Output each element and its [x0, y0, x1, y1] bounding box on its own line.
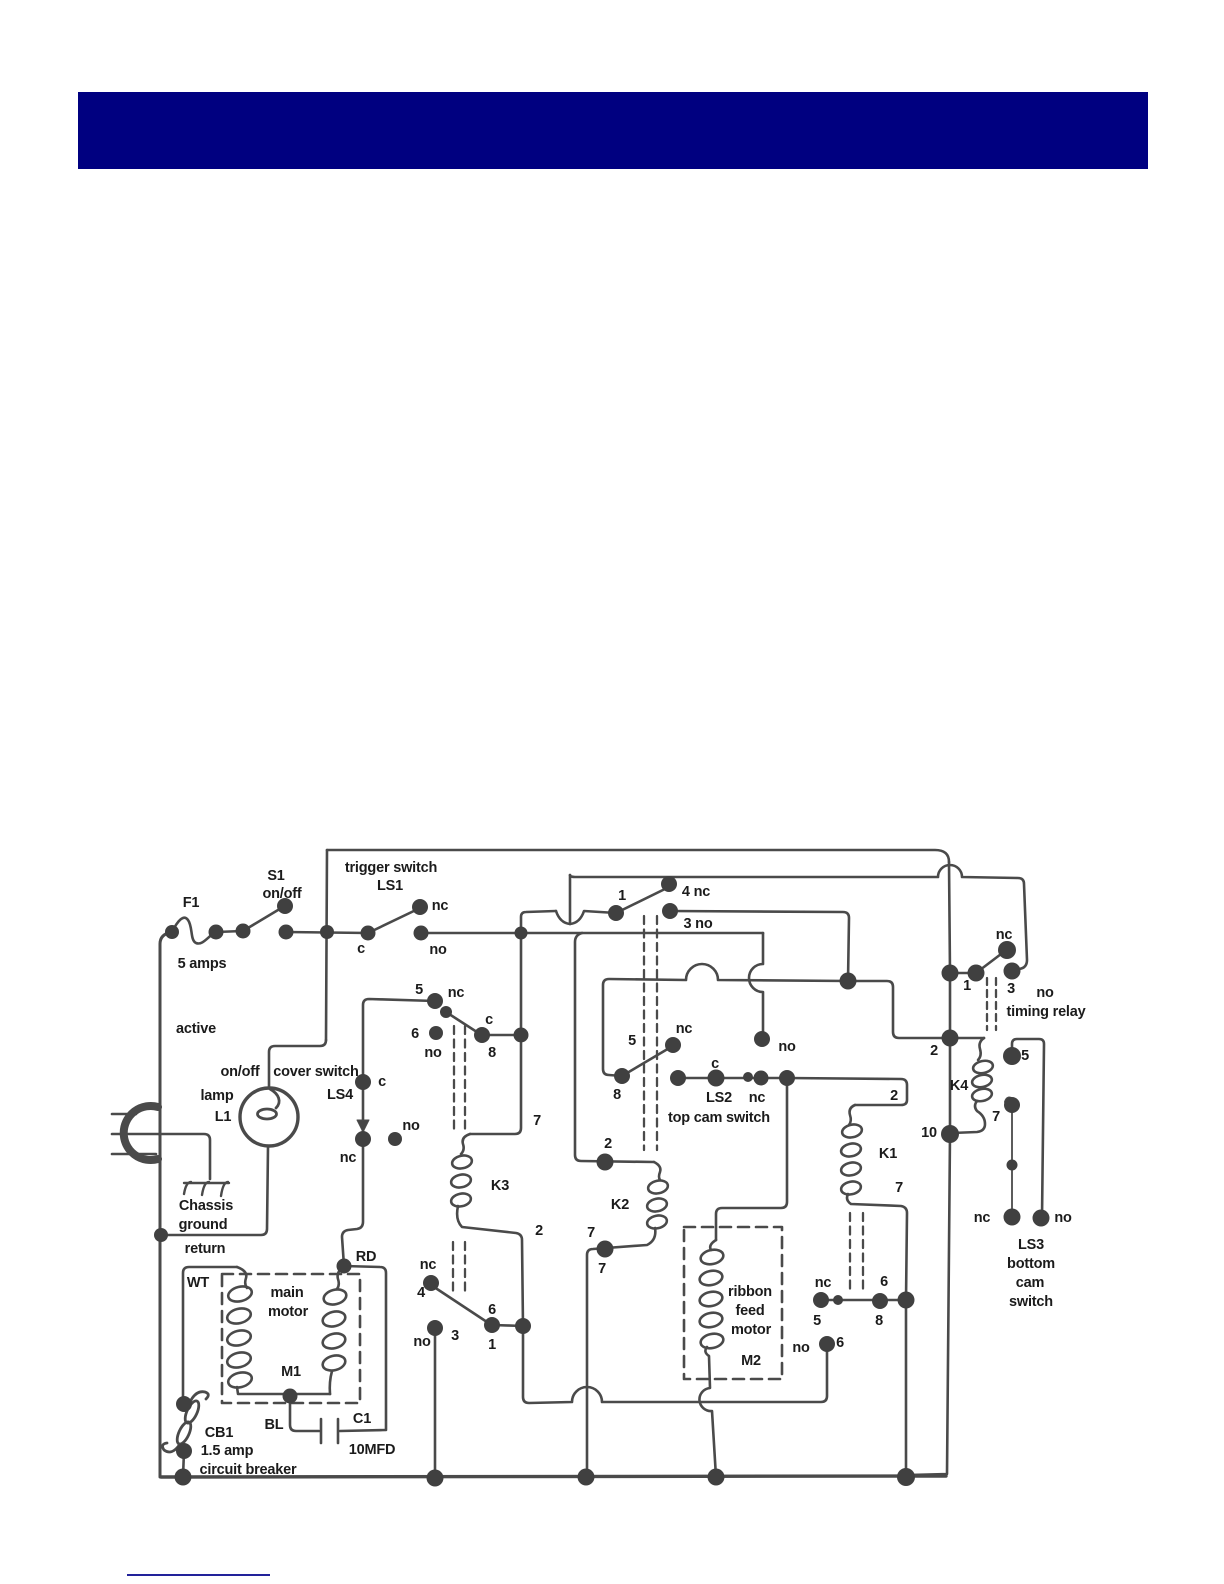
plug prong bottom — [112, 1153, 156, 1156]
svg-text:10MFD: 10MFD — [349, 1442, 396, 1458]
wire S1 output to junction — [286, 932, 368, 933]
dashed linkage K3 lower — [453, 1242, 465, 1293]
node junction x=523 lower — [515, 1318, 531, 1334]
wire junction y=981 right then down x=893 to y=1038 then right to 2-junction — [848, 981, 984, 1038]
svg-text:K2: K2 — [611, 1197, 629, 1213]
dashed box main motor M1 — [222, 1274, 360, 1403]
wire y=980 from junction left with hop at x=702 to corner x=603 — [603, 964, 848, 1076]
wire K3 pin2 out right and down x=522 to contacts junction — [457, 1206, 523, 1326]
node LS2 output junction — [779, 1070, 795, 1086]
node LS3 no terminal — [1033, 1210, 1050, 1227]
svg-text:8: 8 — [613, 1087, 621, 1103]
node K2 pin 2 junction — [597, 1154, 614, 1171]
plug prong middle — [112, 1133, 160, 1136]
svg-text:2: 2 — [535, 1223, 543, 1239]
node LS1 c terminal — [361, 926, 376, 941]
relay coil K4 — [978, 1038, 984, 1060]
node junction x=521 at c wire — [514, 1028, 529, 1043]
wire y=877 from corner right with hop over x=950 to corner x=1024 — [570, 865, 1027, 971]
wire K4 coil out pin7 to 10-junction — [952, 1101, 985, 1133]
dashed linkage K3 upper — [454, 1026, 465, 1132]
node fuse left terminal — [165, 925, 179, 939]
svg-text:no: no — [778, 1039, 796, 1055]
svg-text:circuit breaker: circuit breaker — [200, 1462, 297, 1478]
svg-text:nc: nc — [749, 1090, 766, 1106]
svg-text:6: 6 — [836, 1335, 844, 1351]
node timing relay 3 terminal — [1004, 963, 1021, 980]
svg-text:1: 1 — [963, 978, 971, 994]
node K1 contact junction — [898, 1292, 915, 1309]
capacitor C1 left plate — [320, 1419, 323, 1443]
wire K1 pin7 out to corner x=907 down to contacts junction — [847, 1194, 907, 1300]
svg-text:nc: nc — [448, 985, 465, 1001]
node K1 contact 8 — [872, 1293, 888, 1309]
node trigger circuit no dot — [754, 1031, 770, 1047]
chassis ground symbol — [184, 1182, 229, 1196]
svg-text:no: no — [1036, 985, 1054, 1001]
switch timing relay lever 1-nc — [976, 951, 1005, 973]
motor coil M2 — [710, 1240, 716, 1250]
svg-text:1.5 amp: 1.5 amp — [201, 1443, 254, 1459]
svg-text:lamp: lamp — [200, 1088, 233, 1104]
node LS1 no terminal — [414, 926, 429, 941]
node K1 contact small — [833, 1295, 843, 1305]
wire top horizontal y=850 — [327, 850, 949, 862]
wire motor center tap down to capacitor — [290, 1397, 319, 1431]
wire LS4 nc down to RD dot with jog — [342, 1146, 363, 1266]
svg-text:no: no — [424, 1045, 442, 1061]
svg-text:5 amps: 5 amps — [178, 956, 227, 972]
svg-text:3: 3 — [451, 1328, 459, 1344]
node RD motor top terminal — [337, 1259, 352, 1274]
wire LS1 no to junction x=521 and on to corner x=763 — [421, 932, 763, 935]
svg-text:6: 6 — [488, 1302, 496, 1318]
wire capacitor to frame right edge — [340, 1430, 386, 1431]
node LS1 nc terminal — [412, 899, 428, 915]
node K4 pin 5 — [1003, 1047, 1021, 1065]
switch LS4 cover arm with arrowhead — [362, 1088, 365, 1132]
svg-text:LS3: LS3 — [1018, 1237, 1044, 1253]
switch K2 aux lever 1-4nc — [616, 888, 667, 913]
wire K1 contact row y=1300 — [821, 1299, 906, 1302]
footer navy line — [127, 1574, 270, 1576]
switch lever 8-nc (K2 contacts) — [622, 1047, 671, 1076]
svg-text:4 nc: 4 nc — [682, 884, 710, 900]
svg-text:nc: nc — [996, 927, 1013, 943]
node LS3 arm middle dot — [1007, 1160, 1018, 1171]
svg-text:L1: L1 — [215, 1109, 232, 1125]
svg-text:7: 7 — [598, 1261, 606, 1277]
svg-text:no: no — [792, 1340, 810, 1356]
wire no dot down to bottom bus x=435 — [434, 1335, 437, 1478]
fuse F1 — [172, 918, 243, 944]
svg-text:ribbon: ribbon — [728, 1284, 772, 1300]
wire left vertical (active side) — [160, 932, 172, 1477]
svg-text:4: 4 — [417, 1285, 425, 1301]
svg-text:nc: nc — [340, 1150, 357, 1166]
node K3 no 3 terminal — [427, 1320, 443, 1336]
switch LS4 arrowhead — [357, 1120, 369, 1132]
node LS4 nc terminal — [355, 1131, 371, 1147]
node K3 lever lower end — [484, 1317, 500, 1333]
node motor center tap — [283, 1389, 298, 1404]
node junction 2 at K4 — [942, 1030, 959, 1047]
circuit breaker CB1 squiggle — [163, 1392, 209, 1452]
svg-text:K1: K1 — [879, 1146, 897, 1162]
wire chassis ground drop — [159, 1134, 210, 1179]
svg-text:timing relay: timing relay — [1007, 1004, 1086, 1020]
svg-text:cam: cam — [1016, 1275, 1044, 1291]
svg-text:nc: nc — [676, 1021, 693, 1037]
svg-text:7: 7 — [587, 1225, 595, 1241]
svg-text:motor: motor — [731, 1322, 772, 1338]
svg-text:3 no: 3 no — [683, 916, 712, 932]
svg-text:6: 6 — [880, 1274, 888, 1290]
svg-text:M1: M1 — [281, 1364, 301, 1380]
svg-text:5: 5 — [1021, 1048, 1029, 1064]
svg-text:nc: nc — [432, 898, 449, 914]
capacitor C1 right plate — [337, 1419, 340, 1443]
wire LS4 feed from cover switch up to K3 contact 5 — [363, 999, 435, 1076]
svg-text:10: 10 — [921, 1125, 937, 1141]
svg-text:return: return — [185, 1241, 226, 1257]
node ribbon motor no 6 terminal — [819, 1336, 835, 1352]
node LS4 no terminal — [388, 1132, 402, 1146]
node K3 contact 4 nc — [423, 1275, 439, 1291]
plug prong top — [112, 1113, 136, 1116]
wire lamp top riser and corner from x=326 — [269, 1040, 326, 1088]
svg-text:no: no — [1054, 1210, 1072, 1226]
svg-text:ground: ground — [179, 1217, 228, 1233]
svg-text:5: 5 — [813, 1313, 821, 1329]
wire riser x=570 to corner of y=877 wire — [569, 875, 572, 924]
lamp filament oval — [258, 1109, 277, 1119]
svg-text:trigger switch: trigger switch — [345, 860, 437, 876]
svg-text:5: 5 — [628, 1033, 636, 1049]
wire timing relay common stub — [950, 972, 976, 975]
node K1 contact nc — [813, 1292, 829, 1308]
svg-text:BL: BL — [265, 1417, 284, 1433]
switch K3 lower lever 4-1 — [431, 1285, 490, 1324]
node LS2 small dot — [743, 1072, 753, 1082]
node bottom bus at x=716 — [708, 1469, 725, 1486]
node return junction — [154, 1228, 168, 1242]
svg-text:1: 1 — [618, 888, 626, 904]
node LS3 nc terminal — [1004, 1209, 1021, 1226]
node fuse right terminal — [209, 925, 224, 940]
svg-text:Chassis: Chassis — [179, 1198, 233, 1214]
svg-text:7: 7 — [992, 1109, 1000, 1125]
svg-text:C1: C1 — [353, 1411, 371, 1427]
svg-text:motor: motor — [268, 1304, 309, 1320]
node K2 contact 8 pivot — [614, 1068, 630, 1084]
relay coil K3 — [461, 1134, 470, 1154]
wire y=911 branch from junction 521 to switch common — [521, 911, 556, 933]
node junction 10 — [941, 1125, 959, 1143]
header navy bar — [78, 92, 1148, 169]
node CB1 top terminal — [176, 1396, 192, 1412]
node junction x=521 main line — [515, 927, 528, 940]
node LS3 arm top dot — [1004, 1097, 1020, 1113]
switch LS1 trigger lever — [368, 909, 418, 933]
node contact 3 no — [662, 903, 678, 919]
wire left riser x=327 from lamp corner up to top wire — [326, 850, 327, 1040]
svg-text:5: 5 — [415, 982, 423, 998]
svg-text:switch: switch — [1009, 1294, 1053, 1310]
node bottom bus at x=435 — [427, 1470, 444, 1487]
svg-text:M2: M2 — [741, 1353, 761, 1369]
wire CB1 bottom stub to bus — [183, 1451, 184, 1477]
node LS2 c terminal — [708, 1070, 725, 1087]
svg-text:K4: K4 — [950, 1078, 968, 1094]
wire x=523 down to y=1402 run with hop at x=587 and corner up to 6 dot — [523, 1326, 827, 1403]
switch K3 upper lever 5-c — [446, 1012, 480, 1034]
node switch common 1 — [608, 905, 624, 921]
node bottom bus at x=586 — [578, 1469, 595, 1486]
svg-text:S1: S1 — [267, 868, 284, 884]
node junction y=981 — [840, 973, 857, 990]
node LS4 c terminal — [355, 1074, 371, 1090]
node CB1 bottom terminal — [176, 1443, 192, 1459]
svg-text:on/off: on/off — [220, 1064, 259, 1080]
motor coil WT — [237, 1267, 247, 1288]
svg-text:main: main — [270, 1285, 303, 1301]
node contact 4 nc — [661, 876, 677, 892]
svg-text:8: 8 — [875, 1313, 883, 1329]
lamp L1 circle — [240, 1088, 298, 1146]
node S1 open contact — [277, 898, 293, 914]
wire M2 out down with hop bulge at y=1402 to bottom bus — [699, 1347, 716, 1477]
wire K3 contact c to junction x=521 — [482, 1034, 521, 1037]
svg-text:CB1: CB1 — [205, 1425, 234, 1441]
main motor solid frame left/top — [183, 1267, 237, 1404]
wire LS2 row — [678, 1077, 787, 1080]
node S1 common terminal — [236, 924, 251, 939]
svg-text:nc: nc — [974, 1210, 991, 1226]
wire K2 feed branch from y=933 down x=575 — [575, 933, 654, 1162]
wire K3 feed vertical x=521 from main line junction — [470, 933, 521, 1134]
svg-text:feed: feed — [735, 1303, 764, 1319]
wire 3no dot right to corner x=849 down to junction y=981 — [670, 911, 849, 981]
wire plug middle prong to left vertical and lamp return junction — [161, 1147, 268, 1235]
wire LS2 junction down x=787 to ribbon motor — [716, 1078, 787, 1240]
node K3 lever pivot — [440, 1006, 452, 1018]
svg-text:LS4: LS4 — [327, 1087, 353, 1103]
node K3 contact c — [474, 1027, 490, 1043]
svg-text:1: 1 — [488, 1337, 496, 1353]
node timing relay nc terminal — [998, 941, 1016, 959]
dashed linkage timing relay — [987, 978, 996, 1030]
node junction x=327 main line — [320, 925, 334, 939]
lamp filament loop — [270, 1089, 279, 1108]
relay coil K1 — [849, 1105, 855, 1125]
svg-text:LS1: LS1 — [377, 878, 403, 894]
wire RD coil bottom to motor bottom bar — [330, 1371, 332, 1394]
svg-text:no: no — [429, 942, 447, 958]
svg-text:c: c — [711, 1056, 719, 1072]
plug body arc — [124, 1106, 158, 1160]
svg-text:2: 2 — [890, 1088, 898, 1104]
svg-text:cover switch: cover switch — [273, 1064, 358, 1080]
node timing relay junction — [942, 965, 959, 982]
node timing relay 1 terminal — [968, 965, 985, 982]
svg-text:c: c — [357, 941, 365, 957]
node bottom bus at CB1 — [175, 1469, 192, 1486]
wire bottom return bus — [161, 1476, 946, 1477]
svg-text:2: 2 — [604, 1136, 612, 1152]
svg-text:7: 7 — [895, 1180, 903, 1196]
node K3 contact 6 no — [429, 1026, 443, 1040]
wire lever dot to junction x=523 — [492, 1325, 523, 1326]
switch LS3 arm line — [1011, 1105, 1013, 1211]
svg-text:LS2: LS2 — [706, 1090, 732, 1106]
svg-text:active: active — [176, 1021, 216, 1037]
wire K4 pin5 loop over to LS3 no vertical — [1012, 1039, 1044, 1218]
node LS2 left terminal — [670, 1070, 686, 1086]
svg-text:3: 3 — [1007, 981, 1015, 997]
svg-text:c: c — [378, 1074, 386, 1090]
relay coil K2 — [654, 1162, 660, 1180]
wire fillet dip at x=570 on y=911 line — [556, 911, 616, 924]
svg-text:K3: K3 — [491, 1178, 509, 1194]
svg-text:8: 8 — [488, 1045, 496, 1061]
svg-text:nc: nc — [420, 1257, 437, 1273]
node K2 pin 7 junction — [597, 1241, 614, 1258]
switch LS3 arm hook — [1005, 1098, 1013, 1102]
svg-text:6: 6 — [411, 1026, 419, 1042]
dashed linkage K2 — [644, 916, 657, 1150]
dashed linkage K1 — [850, 1213, 863, 1292]
svg-text:top cam switch: top cam switch — [668, 1110, 770, 1126]
svg-text:WT: WT — [187, 1275, 209, 1291]
svg-text:no: no — [402, 1118, 420, 1134]
wire right spine x=949 from top wire down to bottom bus — [908, 862, 950, 1475]
node K3 contact 5 — [427, 993, 443, 1009]
node bottom bus at x=906 — [897, 1468, 915, 1486]
wire K2 pin7 out to 7-junction and down x=587 to bottom bus — [587, 1228, 655, 1477]
wire K1 junction down to bottom bus — [905, 1300, 908, 1477]
main motor solid frame right side — [344, 1266, 386, 1429]
wire vertical x=763 down to no dot with hop bulge left at y=979 — [749, 933, 763, 1039]
svg-text:c: c — [485, 1012, 493, 1028]
svg-text:bottom: bottom — [1007, 1256, 1055, 1272]
wire LS2 junction right to K1 pin2 bracket — [787, 1078, 907, 1105]
dashed box ribbon feed motor M2 — [684, 1227, 782, 1379]
motor coil RD — [337, 1266, 344, 1289]
node K2 contact nc upper — [665, 1037, 681, 1053]
svg-text:RD: RD — [356, 1249, 377, 1265]
switch S1 lever — [243, 907, 283, 931]
node S1 output terminal — [279, 925, 294, 940]
svg-text:on/off: on/off — [262, 886, 301, 902]
svg-text:F1: F1 — [183, 895, 200, 911]
node LS2 nc terminal — [754, 1071, 769, 1086]
svg-text:nc: nc — [815, 1275, 832, 1291]
svg-text:2: 2 — [930, 1043, 938, 1059]
svg-text:7: 7 — [533, 1113, 541, 1129]
svg-text:no: no — [413, 1334, 431, 1350]
wire WT coil bottom to motor bottom bar — [237, 1387, 330, 1394]
